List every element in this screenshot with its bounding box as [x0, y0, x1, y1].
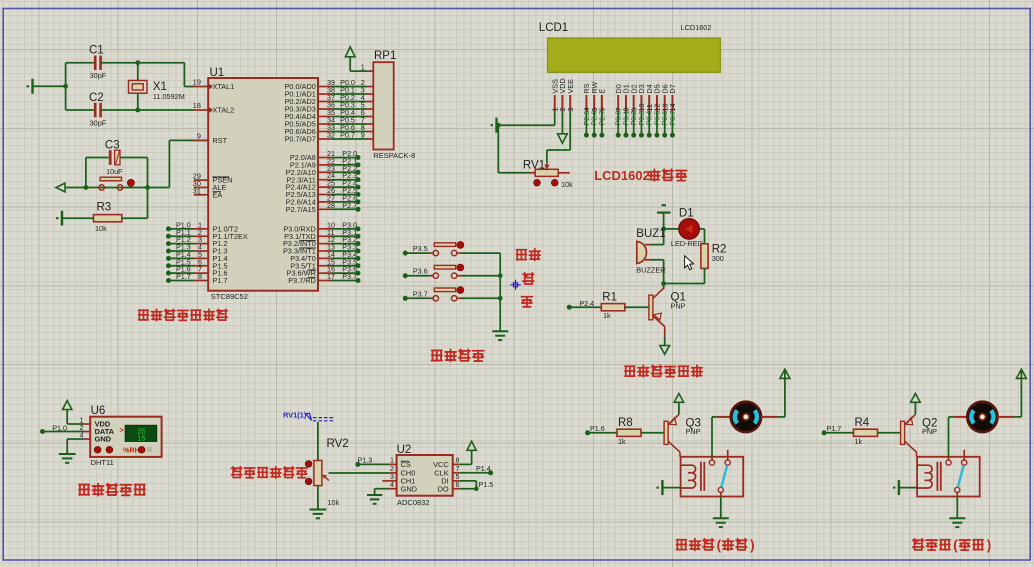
- svg-text:RESPACK-8: RESPACK-8: [373, 151, 415, 160]
- svg-text:30pF: 30pF: [90, 71, 107, 80]
- svg-text:P3.5: P3.5: [413, 244, 428, 253]
- svg-text:8: 8: [198, 272, 202, 281]
- svg-text:10k: 10k: [95, 224, 107, 233]
- svg-text:10uF: 10uF: [106, 167, 123, 176]
- svg-text:E: E: [598, 89, 607, 94]
- svg-text:1k: 1k: [603, 311, 611, 320]
- svg-text:(: (: [717, 538, 722, 553]
- svg-text:31: 31: [193, 186, 201, 195]
- svg-text:9: 9: [361, 131, 365, 140]
- svg-text:STC89C52: STC89C52: [211, 292, 248, 301]
- svg-text:): ): [987, 538, 992, 553]
- svg-text:RST: RST: [213, 136, 228, 145]
- svg-text:R8: R8: [618, 417, 633, 429]
- svg-text:1k: 1k: [618, 437, 626, 446]
- svg-text:XTAL2: XTAL2: [213, 106, 235, 115]
- svg-text:9: 9: [197, 132, 201, 141]
- svg-text:R1: R1: [602, 291, 617, 303]
- svg-text:28: 28: [327, 201, 335, 210]
- svg-text:P1.7: P1.7: [827, 424, 842, 433]
- svg-text:U2: U2: [397, 444, 412, 456]
- svg-text:VEE: VEE: [566, 79, 575, 94]
- svg-text:RV1: RV1: [523, 159, 545, 171]
- svg-text:LCD1: LCD1: [539, 22, 568, 34]
- svg-text:PNP: PNP: [671, 301, 686, 310]
- svg-text:RV1(1): RV1(1): [283, 411, 307, 420]
- svg-text:>: >: [120, 427, 124, 434]
- svg-text:P2.7: P2.7: [342, 201, 357, 210]
- svg-text:XTAL1: XTAL1: [213, 82, 235, 91]
- svg-text:PNP: PNP: [686, 427, 701, 436]
- svg-text:PNP: PNP: [922, 427, 937, 436]
- svg-text:%RH: %RH: [123, 448, 139, 455]
- svg-text:C3: C3: [105, 140, 120, 152]
- svg-text:17: 17: [327, 272, 335, 281]
- svg-text:GND: GND: [95, 435, 112, 444]
- svg-text:P1.4: P1.4: [476, 464, 491, 473]
- svg-text:P3.7: P3.7: [342, 272, 357, 281]
- svg-text:P0.7: P0.7: [668, 111, 677, 126]
- svg-text:6: 6: [456, 480, 460, 489]
- svg-text:1k: 1k: [855, 437, 863, 446]
- svg-text:(: (: [953, 538, 958, 553]
- svg-text:DHT11: DHT11: [91, 458, 114, 467]
- svg-text:D7: D7: [668, 84, 677, 93]
- svg-text:P1.7: P1.7: [213, 276, 228, 285]
- svg-text:LED-RED: LED-RED: [671, 239, 703, 248]
- svg-text:P3.6: P3.6: [413, 267, 428, 276]
- svg-text:DO: DO: [438, 484, 449, 493]
- svg-text:ADC0832: ADC0832: [397, 498, 430, 507]
- svg-text:D1: D1: [679, 207, 694, 219]
- svg-text:BUZ1: BUZ1: [636, 228, 665, 240]
- svg-text:C2: C2: [89, 92, 104, 104]
- svg-text:P2.7/A15: P2.7/A15: [286, 205, 316, 214]
- svg-text:P0.7: P0.7: [340, 131, 355, 140]
- svg-text:LCD1602: LCD1602: [594, 168, 650, 183]
- svg-text:P1.7: P1.7: [176, 272, 191, 281]
- svg-text:P0.7/AD7: P0.7/AD7: [285, 135, 316, 144]
- svg-text:30pF: 30pF: [90, 118, 107, 127]
- svg-text:19: 19: [193, 78, 201, 87]
- svg-text:P1.5: P1.5: [479, 480, 494, 489]
- svg-text:300: 300: [712, 254, 724, 263]
- svg-text:GND: GND: [401, 484, 417, 493]
- svg-text:10k: 10k: [328, 498, 340, 507]
- svg-text:14: 14: [668, 104, 677, 112]
- svg-text:C1: C1: [89, 45, 104, 57]
- svg-text:RP1: RP1: [374, 50, 396, 62]
- svg-text:P1.3: P1.3: [358, 456, 373, 465]
- svg-text:R4: R4: [855, 417, 870, 429]
- svg-text:U6: U6: [91, 405, 106, 417]
- svg-text:1: 1: [361, 63, 365, 72]
- svg-text:18: 18: [193, 101, 201, 110]
- svg-text:P1.6: P1.6: [590, 424, 605, 433]
- svg-text:R3: R3: [97, 202, 112, 214]
- svg-text:BUZZER: BUZZER: [636, 265, 665, 274]
- svg-text:RV2: RV2: [327, 438, 349, 450]
- svg-text:): ): [750, 538, 755, 553]
- svg-text:U1: U1: [210, 67, 225, 79]
- svg-text:15: 15: [137, 434, 145, 443]
- svg-text:P3.7: P3.7: [413, 289, 428, 298]
- svg-text:10k: 10k: [561, 180, 573, 189]
- svg-text:11.0592M: 11.0592M: [153, 92, 185, 101]
- svg-text:4: 4: [390, 480, 394, 489]
- svg-text:P2.7: P2.7: [597, 111, 606, 126]
- svg-text:32: 32: [327, 131, 335, 140]
- svg-text:LCD1602: LCD1602: [681, 23, 712, 32]
